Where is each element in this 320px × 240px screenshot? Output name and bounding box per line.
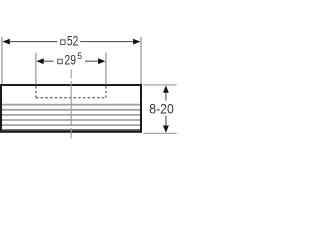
- dim3 arrow up: [163, 85, 169, 92]
- dim2 arrow left: [36, 58, 43, 64]
- dim3 extension line top: [144, 84, 177, 86]
- dim3 arrow down: [163, 126, 169, 133]
- centerline: [70, 70, 72, 139]
- hidden cutout: dashed left edge: [35, 86, 37, 98]
- dim2 extension line left: [35, 53, 37, 85]
- object: plate outer rectangle: [1, 85, 141, 132]
- dim2 square symbol: [58, 59, 63, 64]
- dim3 line: [165, 92, 167, 126]
- dim1 line: [9, 41, 134, 43]
- dim2 arrow right: [98, 58, 105, 64]
- layer stripe 3: [2, 114, 140, 116]
- object: bottom edge thickening: [1, 129, 141, 131]
- svg-text:52: 52: [67, 33, 78, 49]
- layer stripe 1: [2, 104, 140, 106]
- dim1 arrow left: [3, 39, 10, 45]
- dim2 line: [43, 60, 99, 62]
- dim1 extension line right: [140, 37, 142, 84]
- dim1 square symbol: [61, 40, 66, 45]
- layer stripe 4: [2, 119, 140, 121]
- svg-text:5: 5: [77, 51, 82, 62]
- dim3 extension line bottom: [144, 132, 177, 134]
- dim1 extension line left: [1, 37, 3, 84]
- hidden cutout: dashed bottom edge: [36, 97, 106, 99]
- svg-text:29: 29: [64, 51, 76, 67]
- layer stripe 5: [2, 124, 140, 126]
- svg-text:8-20: 8-20: [149, 100, 174, 116]
- dim2 extension line right: [105, 53, 107, 85]
- layer stripe 2: [2, 109, 140, 111]
- dim1 arrow right: [133, 39, 140, 45]
- hidden cutout: dashed right edge: [105, 86, 107, 98]
